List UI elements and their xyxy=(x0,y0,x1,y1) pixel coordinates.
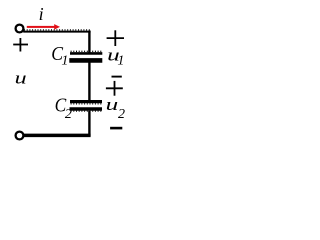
svg-text:2: 2 xyxy=(65,107,72,122)
terminal (top-left) xyxy=(16,25,24,33)
wire (top horizontal) xyxy=(23,31,90,33)
wire (right vertical, top lead into C1) xyxy=(88,31,90,53)
svg-text:u: u xyxy=(106,95,119,114)
plus sign of u2 xyxy=(106,81,123,96)
terminal (bottom-left) xyxy=(16,132,24,140)
minus sign of u2 xyxy=(110,127,122,130)
capacitor C2 plates xyxy=(70,102,103,112)
svg-text:i: i xyxy=(39,4,44,24)
svg-text:2: 2 xyxy=(118,107,125,122)
wire (bottom lead from C2) xyxy=(88,111,90,136)
minus sign of u1 xyxy=(112,76,122,78)
capacitor C1 plates xyxy=(69,51,102,60)
current arrow i (red) xyxy=(27,24,60,30)
wire (bottom horizontal) xyxy=(23,134,90,138)
svg-text:u: u xyxy=(15,69,27,88)
plus sign of source voltage u xyxy=(13,38,28,52)
plus sign of u1 xyxy=(107,30,124,46)
svg-text:1: 1 xyxy=(117,54,124,69)
wire (lead between C1 and C2) xyxy=(88,62,90,101)
svg-text:1: 1 xyxy=(61,53,68,68)
